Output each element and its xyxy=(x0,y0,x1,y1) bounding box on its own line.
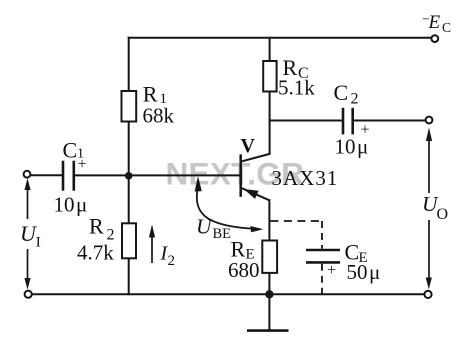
svg-text:C: C xyxy=(63,138,78,163)
svg-text:10μ: 10μ xyxy=(54,193,88,217)
transistor V emitter lead xyxy=(242,188,270,200)
svg-text:+: + xyxy=(78,156,87,173)
svg-text:2: 2 xyxy=(351,91,359,108)
wire collector to C2 xyxy=(270,120,342,122)
resistor RC xyxy=(263,61,276,92)
terminal output top xyxy=(426,117,433,124)
wire dashed CE top lead xyxy=(321,221,323,249)
wire dashed CE bottom lead xyxy=(321,264,323,294)
wire bottom rail xyxy=(32,293,424,295)
svg-text:68k: 68k xyxy=(143,104,175,128)
resistor RE xyxy=(262,241,277,273)
capacitor CE xyxy=(306,250,340,262)
node base junction dot xyxy=(125,172,133,180)
svg-text:5.1k: 5.1k xyxy=(278,76,315,100)
wire base from input terminal to C1 xyxy=(30,174,62,176)
svg-text:680: 680 xyxy=(228,258,260,282)
transistor V emitter arrow (PNP) xyxy=(244,189,259,199)
wire top rail xyxy=(129,37,432,39)
capacitor C1 xyxy=(63,161,74,191)
wire C1 to base junction to transistor base xyxy=(75,174,240,176)
svg-text:O: O xyxy=(437,206,449,223)
svg-text:4.7k: 4.7k xyxy=(77,241,114,265)
UO voltage arrow lower xyxy=(426,219,432,289)
UO voltage arrow upper xyxy=(426,128,432,194)
UBE arc arrow xyxy=(195,176,264,232)
svg-text:I: I xyxy=(36,234,41,250)
svg-text:10μ: 10μ xyxy=(335,135,369,159)
svg-text:2: 2 xyxy=(168,253,176,269)
transistor V collector lead xyxy=(242,154,270,161)
svg-text:3AX31: 3AX31 xyxy=(272,166,339,190)
UI voltage arrow upper xyxy=(24,178,30,219)
label UO xyxy=(418,192,448,223)
terminal output bottom xyxy=(424,291,431,298)
wire collector branch xyxy=(269,38,271,154)
svg-text:+: + xyxy=(327,262,336,279)
transistor V base bar xyxy=(239,154,242,196)
node emitter-ground junction dot xyxy=(265,290,273,298)
ground xyxy=(247,329,289,332)
wire ground stub xyxy=(268,294,270,329)
svg-text:50μ: 50μ xyxy=(347,260,381,284)
wire C2 to output terminal xyxy=(354,120,425,122)
svg-text:BE: BE xyxy=(213,226,232,242)
terminal -EC supply xyxy=(431,35,438,42)
svg-text:V: V xyxy=(241,135,256,157)
svg-text:U: U xyxy=(196,215,213,239)
label UI xyxy=(16,220,45,250)
UI voltage arrow lower xyxy=(24,249,30,290)
svg-text:C: C xyxy=(442,20,451,35)
terminal input top xyxy=(24,171,31,178)
capacitor C2 xyxy=(343,108,353,135)
svg-text:R: R xyxy=(89,214,104,239)
resistor R1 xyxy=(122,91,137,122)
resistor R2 xyxy=(122,223,136,258)
I2 current arrow xyxy=(149,225,155,264)
terminal input bottom xyxy=(25,291,32,298)
svg-text:E: E xyxy=(428,12,441,33)
svg-text:C: C xyxy=(334,80,349,105)
wire left branch vertical xyxy=(128,38,130,295)
wire dashed emitter to CE xyxy=(270,220,322,222)
wire emitter branch xyxy=(268,200,270,294)
